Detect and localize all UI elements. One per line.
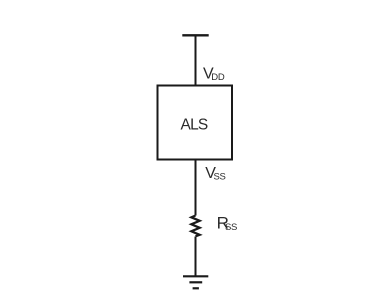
wire VDD supply to ALS box: [195, 36, 197, 87]
svg-text:SS: SS: [225, 222, 237, 233]
label RSS: [217, 213, 237, 233]
ALS block U1: [158, 86, 233, 160]
svg-text:SS: SS: [214, 172, 226, 183]
svg-text:ALS: ALS: [181, 117, 208, 134]
wire VSS ALS box to resistor: [195, 160, 197, 216]
VDD supply rail bar: [182, 34, 208, 36]
ground symbol: [183, 276, 208, 288]
resistor RSS zigzag: [191, 216, 199, 237]
label VDD pin: [203, 66, 225, 84]
wire resistor to ground: [195, 237, 197, 277]
svg-text:DD: DD: [211, 72, 225, 83]
label VSS pin: [205, 165, 225, 183]
